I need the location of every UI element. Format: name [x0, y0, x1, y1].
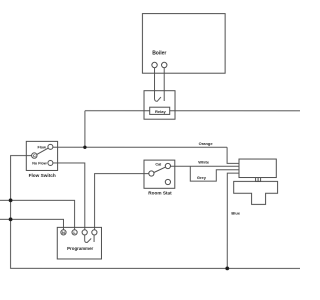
wire flow-switch Flow terminal / orange run	[53, 146, 227, 148]
flow switch box	[26, 141, 57, 170]
wire room stat left terminal to programmer terminal 4	[95, 174, 149, 230]
svg-text:White: White	[198, 160, 210, 165]
svg-text:N: N	[62, 230, 65, 235]
junction dot live node	[9, 198, 13, 202]
room stat spare terminal	[165, 179, 170, 184]
flow switch C terminal	[32, 153, 37, 158]
junction dot orange/relay node	[83, 146, 86, 149]
wire neutral feed left edge to programmer N	[0, 219, 63, 230]
flow switch No Flow terminal	[48, 160, 53, 165]
relay outer box	[144, 91, 175, 120]
wire blue (valve motor to neutral rail)	[227, 173, 239, 268]
room stat common terminal	[149, 171, 154, 176]
wire neutral drop and bottom rail	[11, 219, 300, 268]
wire live feed left edge to programmer L	[0, 200, 75, 230]
wire boiler terminal 1 to relay contact	[155, 68, 161, 102]
wire no-flow terminal to programmer terminal 3	[53, 163, 85, 230]
svg-text:Relay: Relay	[155, 109, 166, 114]
svg-text:Flow: Flow	[37, 146, 46, 150]
programmer L terminal	[72, 230, 77, 235]
wire flow switch C to live vertical	[11, 156, 32, 201]
flow switch Flow terminal	[48, 144, 53, 149]
wire left vertical between junctions	[10, 200, 12, 219]
wire orange drop into valve motor	[227, 147, 239, 163]
programmer switch link	[85, 235, 94, 243]
programmer terminal 4	[92, 230, 97, 235]
boiler terminal 1	[152, 62, 157, 67]
room stat box	[144, 160, 175, 188]
room stat call terminal	[165, 163, 170, 168]
svg-text:Boiler: Boiler	[152, 50, 166, 56]
programmer box	[57, 227, 101, 259]
boiler terminal 2	[162, 62, 167, 67]
valve motor box	[239, 159, 276, 178]
valve neck divider	[257, 178, 259, 182]
svg-text:No Flow: No Flow	[32, 162, 46, 166]
svg-text:Room Stat: Room Stat	[148, 191, 172, 196]
svg-text:Flow Switch: Flow Switch	[29, 173, 56, 178]
svg-text:Orange: Orange	[199, 141, 214, 146]
room stat switch arm	[154, 167, 166, 172]
valve neck	[256, 178, 261, 182]
wire white (room stat to valve motor)	[170, 165, 239, 167]
svg-text:Programmer: Programmer	[67, 246, 93, 251]
svg-text:Grey: Grey	[197, 175, 207, 180]
svg-text:Cal: Cal	[155, 163, 161, 167]
flow switch arm	[37, 148, 48, 154]
valve body	[234, 181, 278, 204]
wire relay line drop to orange junction	[84, 111, 86, 148]
wire relay coil line (x=84.9 to right edge)	[85, 110, 300, 112]
junction dot neutral node	[9, 217, 13, 221]
wire grey branch	[190, 166, 239, 181]
svg-text:Blue: Blue	[231, 211, 240, 216]
wire boiler terminal 2 to relay contact	[163, 68, 165, 101]
programmer terminal 3	[82, 230, 87, 235]
svg-text:C: C	[33, 153, 36, 158]
programmer N terminal	[61, 230, 66, 235]
relay inner box U1	[150, 107, 170, 114]
junction dot blue/neutral rail node	[225, 267, 229, 271]
boiler box	[142, 14, 225, 74]
